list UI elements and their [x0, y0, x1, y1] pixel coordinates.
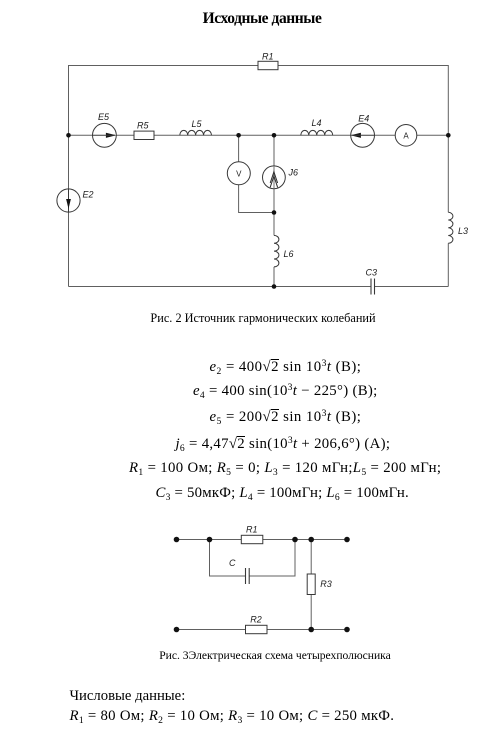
svg-text:R5: R5 — [137, 121, 149, 131]
resistor R3 (vertical) — [307, 574, 315, 595]
inductor L4 — [301, 130, 333, 135]
junction left node on middle rail — [66, 133, 71, 138]
svg-text:L4: L4 — [312, 118, 322, 128]
junction C branch top-right node — [292, 537, 298, 543]
wire voltmeter branch lower + horizontal link to node B — [239, 185, 274, 213]
svg-text:A: A — [403, 131, 409, 140]
svg-text:L5: L5 — [192, 119, 203, 129]
wire R3 branch lower — [310, 595, 312, 630]
inductor L6 (vertical) — [274, 235, 279, 267]
resistor R5 — [134, 131, 154, 139]
svg-text:E4: E4 — [358, 114, 369, 124]
wire bottom rail right of C3 — [375, 286, 449, 288]
svg-text:L3: L3 — [458, 226, 468, 236]
wire C branch left vertical + bottom to C — [210, 540, 246, 577]
source E4 circle — [351, 123, 375, 147]
inductor L5 — [180, 130, 212, 135]
wire bottom rail left of C3 — [69, 286, 372, 288]
svg-text:R1: R1 — [246, 525, 258, 535]
wire R3 branch upper — [310, 540, 312, 575]
terminal input bottom — [174, 627, 180, 633]
voltmeter V circle — [227, 162, 250, 185]
wire bottom rail right of R2 — [267, 629, 347, 631]
source E5 arrow shaft — [93, 134, 115, 136]
junction R3 top node — [308, 537, 314, 543]
ammeter A circle — [395, 125, 417, 147]
equation e2 — [210, 359, 362, 375]
wire node B down to L6 — [273, 213, 275, 236]
capacitor C left plate — [245, 568, 247, 584]
svg-text:J6: J6 — [288, 167, 299, 177]
terminal output bottom — [344, 627, 350, 633]
wire C branch right side — [249, 540, 295, 577]
figure 3 schematic: two-port network — [0, 515, 492, 645]
junction C branch top-left node — [207, 537, 213, 543]
resistor R1 — [258, 61, 278, 69]
figure 2 schematic: harmonic oscillation source circuit — [0, 0, 492, 330]
wire top rail left of R1 — [177, 539, 242, 541]
source E4 arrow shaft — [351, 134, 374, 136]
wire left vertical top segment + top rail left of R1 — [69, 66, 259, 136]
wire L6 to bottom rail — [273, 267, 275, 287]
heading «Числовые данные:» — [70, 689, 186, 704]
resistor R2 — [246, 625, 268, 633]
svg-text:C: C — [229, 558, 236, 568]
junction right node on middle rail — [446, 133, 451, 138]
svg-text:R2: R2 — [250, 614, 262, 624]
current source J6 circle — [263, 166, 286, 189]
values line C3 L4 L6 — [156, 486, 409, 501]
svg-text:R1: R1 — [262, 52, 274, 62]
values line R1 R5 L3 L5 — [129, 461, 441, 476]
wire middle rail — [69, 134, 449, 136]
wire left vertical lower segment through E2 — [68, 135, 70, 286]
source E2 arrow shaft (down) — [68, 189, 70, 212]
wire right vertical above L3 — [447, 135, 449, 212]
wire top rail right of R1 — [263, 539, 347, 541]
junction J6 branch node — [272, 133, 277, 138]
capacitor C right plate — [248, 568, 250, 584]
values line R1 R2 R3 C — [70, 709, 395, 724]
junction node B (V/J6 link) — [272, 210, 277, 215]
svg-text:E2: E2 — [83, 190, 94, 200]
source E5 arrowhead (right) — [106, 133, 116, 138]
equation e4 — [193, 384, 378, 399]
terminal input top — [174, 537, 180, 543]
svg-text:V: V — [236, 169, 242, 178]
resistor R1 (fig.3) — [241, 535, 262, 543]
wire right vertical below L3 — [447, 243, 449, 286]
source E5 circle — [93, 123, 117, 147]
current source J6 outer chevron arrowhead — [270, 172, 277, 183]
wire J6 branch vertical — [273, 135, 275, 212]
caption figure 2 — [34, 312, 492, 324]
wire voltmeter branch upper — [238, 135, 240, 162]
junction voltmeter branch node — [236, 133, 241, 138]
source E2 circle — [57, 189, 80, 212]
junction L6 bottom node — [272, 284, 277, 289]
title «Исходные данные» — [32, 11, 492, 27]
source E2 arrowhead (down) — [66, 199, 71, 209]
capacitor C3 right plate — [374, 279, 376, 295]
caption figure 3 — [58, 650, 492, 662]
wire top rail right of R1 + right vertical down to node — [278, 66, 448, 136]
svg-text:R3: R3 — [320, 579, 332, 589]
svg-text:C3: C3 — [366, 268, 378, 278]
current source J6 through-wire — [273, 166, 275, 188]
equation j6 — [176, 436, 391, 452]
inductor L3 (vertical) — [448, 212, 453, 243]
svg-text:E5: E5 — [98, 112, 110, 122]
source E4 arrowhead (left) — [351, 133, 361, 138]
current source J6 inner chevron arrowhead — [270, 176, 277, 187]
terminal output top — [344, 537, 350, 543]
wire bottom rail left of R2 — [177, 629, 246, 631]
svg-text:L6: L6 — [284, 249, 294, 259]
equation e5 — [210, 409, 362, 425]
capacitor C3 left plate — [370, 279, 372, 295]
junction R3 bottom node — [308, 627, 314, 633]
